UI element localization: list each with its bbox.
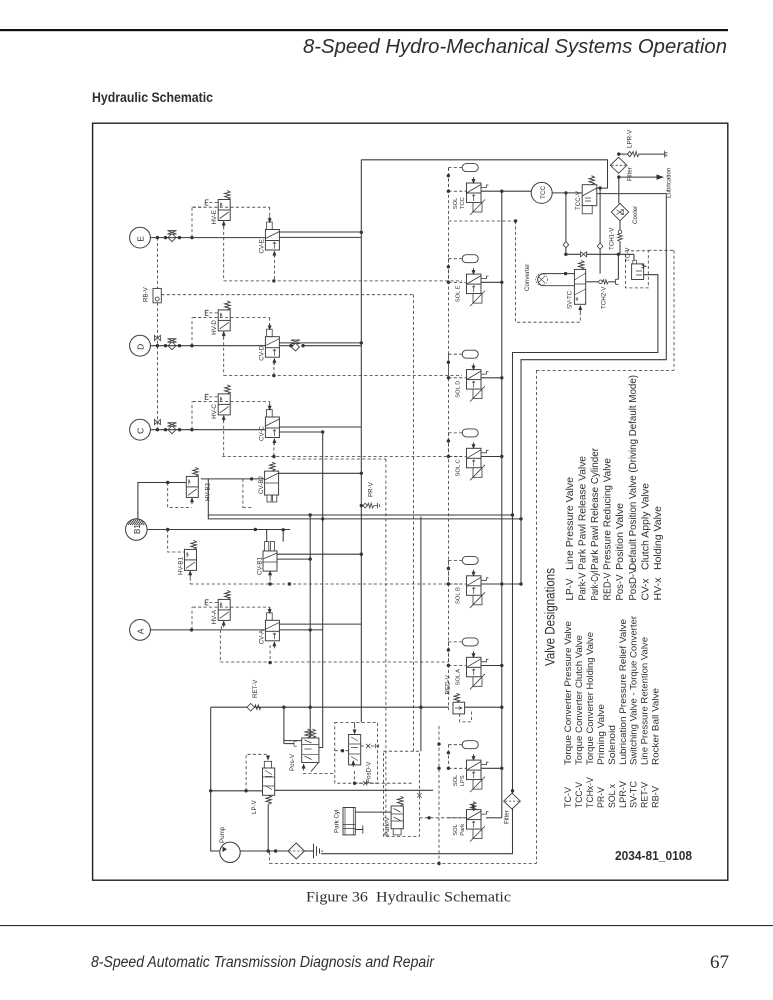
svg-text:E: E — [136, 236, 146, 242]
svg-text:RB-V: RB-V — [651, 785, 661, 808]
svg-text:A: A — [136, 628, 146, 634]
pilot dashed into SOL D — [448, 377, 466, 379]
svg-text:D: D — [136, 344, 146, 350]
pilot dashed CV-A drop — [269, 645, 271, 662]
svg-text:Park Pawl Release Cylinder: Park Pawl Release Cylinder — [590, 447, 601, 570]
arrow into Pos-V bottom — [302, 764, 306, 771]
pilot dashed B-group box — [292, 458, 386, 460]
wire TCC-V drop to converter rail — [599, 188, 601, 274]
pilot dashed SOL Park rail — [419, 817, 466, 819]
accumulator pill SOL E — [462, 255, 478, 263]
valve SV-TC switching valve — [574, 269, 585, 304]
wire lubrication line — [619, 176, 657, 178]
svg-text:LPS: LPS — [460, 775, 466, 786]
svg-text:Holding Valve: Holding Valve — [653, 506, 664, 570]
accumulator pill SOL TCC — [462, 164, 478, 172]
check symbol above node D — [154, 335, 160, 340]
svg-text:8-Speed Automatic Transmission: 8-Speed Automatic Transmission Diagnosis… — [91, 954, 435, 971]
bowtie on Park-V box right edge — [417, 793, 422, 798]
solenoid valve SOL B — [467, 570, 489, 608]
svg-text:HV-C: HV-C — [211, 404, 218, 419]
wire CV-E outputs to main bus — [279, 231, 361, 233]
svg-text:Converter: Converter — [524, 264, 531, 291]
arrow into CV-B1 bottom — [268, 570, 272, 577]
svg-text:TCH2-V: TCH2-V — [601, 286, 608, 309]
valve RB-V rocker ball valve — [153, 288, 161, 302]
check symbol above node C — [154, 419, 160, 424]
pilot dashed PosD-V bottom rail — [355, 782, 414, 784]
solenoid valve SOL TCC — [467, 177, 489, 215]
svg-text:Park-V: Park-V — [578, 572, 589, 600]
tank symbol HV-C — [205, 394, 208, 399]
pilot dashed SOL B rail — [190, 583, 462, 585]
svg-text:Switching Valve - Torque Conve: Switching Valve - Torque Converter — [629, 616, 639, 765]
arrow into CV-A actuator — [268, 607, 272, 614]
pilot dashed Pos-V bottom — [303, 772, 335, 774]
junction dots row D — [156, 344, 159, 347]
wire TC-V output staircase to CV-B2 rail — [513, 275, 658, 791]
pilot dashed HV-A tank line — [193, 606, 205, 608]
tank symbol HV-D — [205, 310, 208, 315]
svg-text:HV-A: HV-A — [211, 609, 218, 624]
accumulator pill SOL LPS — [462, 741, 478, 749]
svg-text:Line Pressure Valve: Line Pressure Valve — [565, 477, 576, 570]
valve RET-V retention valve — [247, 703, 255, 711]
svg-text:67: 67 — [710, 952, 729, 973]
svg-text:Cooler: Cooler — [632, 206, 639, 224]
svg-text:CV-E: CV-E — [259, 239, 266, 253]
svg-text:Default Position Valve (Drivin: Default Position Valve (Driving Default … — [628, 375, 639, 570]
spring Park-V top — [397, 796, 403, 806]
wire SOL B output — [481, 583, 521, 585]
valve Pos-V position valve — [302, 738, 319, 763]
pilot dashed solenoid bus vertical — [447, 168, 449, 710]
orifice row D — [168, 339, 177, 350]
svg-text:Filter: Filter — [504, 810, 511, 824]
valve Park-V park pawl release valve — [391, 806, 403, 829]
valve PR-V priming valve — [360, 504, 363, 507]
svg-text:RED-V: RED-V — [445, 674, 452, 694]
svg-text:Solenoid: Solenoid — [607, 725, 617, 765]
pilot dashed top rail row D — [193, 317, 270, 319]
pump circle — [220, 842, 240, 862]
wire main bus top rail to TCC-V — [361, 160, 607, 188]
pilot dashed CV-B2 drop — [242, 479, 244, 508]
svg-text:Park Cyl: Park Cyl — [334, 810, 341, 833]
svg-text:SOL D: SOL D — [456, 381, 462, 398]
wire LP-V drain to pump line — [267, 805, 269, 852]
pilot dashed pill feed SOL C — [448, 432, 462, 434]
valve LPR-V lubrication pressure relief — [619, 153, 627, 155]
wire bus x421 riser — [420, 517, 422, 752]
arrow into CV-E actuator — [268, 216, 272, 223]
wire clutch D main line — [150, 345, 265, 347]
svg-text:CV-B2: CV-B2 — [258, 476, 265, 494]
svg-text:Hydraulic Schematic: Hydraulic Schematic — [92, 90, 213, 105]
pilot dashed top rail row C — [193, 401, 270, 403]
svg-text:C: C — [136, 428, 146, 434]
wire pump to filter — [240, 850, 288, 852]
svg-text:Park-Cyl: Park-Cyl — [590, 571, 601, 601]
pilot dashed big box left edge — [535, 370, 537, 863]
pilot dashed SOL TCC box bottom — [448, 220, 515, 222]
pilot dashed pill feed SOL E — [448, 258, 462, 260]
pilot dashed HV-D drop — [223, 337, 225, 376]
wire row D orifice to bus — [302, 345, 362, 347]
svg-text:Torque Converter Pressure Valv: Torque Converter Pressure Valve — [563, 621, 573, 765]
wire clutch C main line — [150, 429, 265, 431]
pilot dashed left riser row C — [191, 402, 193, 430]
wire left return riser — [211, 707, 220, 851]
solenoid valve SOL D — [467, 364, 489, 402]
bowtie valve on converter top rail — [581, 252, 587, 257]
svg-text:TCH1-V: TCH1-V — [609, 227, 616, 250]
accumulator pill SOL A — [462, 638, 478, 646]
pilot dashed vertical left bus upper — [156, 238, 158, 289]
pilot dashed vertical left bus lower — [156, 303, 158, 430]
pilot dashed HV-B2 box — [168, 483, 192, 508]
pilot dashed HV-B1 drop — [189, 578, 191, 585]
junction dots row E — [156, 236, 159, 239]
svg-text:TCC-V: TCC-V — [575, 190, 582, 210]
valve CV-D clutch apply valve — [265, 329, 279, 357]
pilot dashed converter box left — [515, 221, 517, 322]
svg-text:Priming Valve: Priming Valve — [596, 704, 606, 765]
pilot dashed Park-V box — [384, 751, 420, 836]
pilot dashed into SOL Park — [448, 817, 466, 819]
pilot dashed big box top edge — [536, 369, 674, 371]
solenoid valve SOL C — [467, 442, 489, 480]
diagonal lever Pos-V — [311, 762, 319, 772]
pilot dashed lower solenoid bus — [438, 726, 440, 864]
accumulator pill SOL D — [462, 350, 478, 358]
pilot dashed row E bottom rail to SOL E — [224, 280, 462, 282]
spring LP-V bottom — [266, 795, 272, 804]
tank symbol HV-E — [205, 200, 208, 205]
header rule — [0, 29, 728, 31]
pilot dashed left riser row A — [191, 607, 193, 630]
pilot dashed HV-C tank line — [193, 401, 205, 403]
wire LP-V feed line — [211, 790, 263, 792]
wire SOL Park output stub — [486, 817, 502, 819]
solenoid valve SOL A — [467, 651, 489, 689]
filter diamond lower right — [504, 793, 521, 809]
svg-text:TCHx-V: TCHx-V — [585, 776, 595, 808]
svg-text:CV-x: CV-x — [640, 578, 651, 601]
orifice row E — [168, 231, 177, 242]
arrow into PosD-V bottom — [351, 760, 355, 767]
valve HV-A holding valve — [218, 590, 230, 620]
pilot dashed row C bottom rail to SOL C — [222, 456, 462, 458]
svg-text:SV-TC: SV-TC — [629, 781, 639, 808]
filter diamond at pump — [288, 843, 305, 859]
svg-text:Pos-V: Pos-V — [289, 753, 296, 771]
node C (clutch port circle) — [130, 419, 151, 440]
cooler diamond — [611, 203, 628, 220]
svg-text:LPR-V: LPR-V — [627, 129, 634, 148]
wire bus into Pos-V right port — [319, 707, 323, 747]
valve HV-B1 holding valve — [185, 540, 197, 570]
svg-text:Park Pawl Release Valve: Park Pawl Release Valve — [578, 456, 589, 570]
svg-text:RET-V: RET-V — [252, 679, 259, 698]
valve LP-V line pressure valve — [264, 761, 271, 768]
svg-text:SOL C: SOL C — [456, 459, 462, 476]
torque converter symbol — [538, 274, 575, 286]
pilot dashed bottom rail — [270, 863, 537, 865]
wire CV-B1 top stubs — [266, 530, 268, 542]
arrow into HV-C bottom — [222, 415, 226, 422]
accumulator pill SOL C — [462, 429, 478, 437]
wire SOL C output — [481, 456, 502, 458]
svg-text:CV-D: CV-D — [259, 345, 266, 360]
arrow into CV-A bottom — [272, 641, 276, 648]
valve CV-B2 clutch apply valve — [265, 471, 279, 495]
svg-text:HV-x: HV-x — [653, 577, 664, 601]
valve HV-C holding valve — [218, 385, 230, 415]
svg-text:LPR-V: LPR-V — [618, 780, 628, 808]
wire SOL E output — [481, 281, 502, 283]
svg-text:LP-V: LP-V — [565, 578, 576, 600]
pilot dashed row A bottom rail — [219, 630, 221, 662]
wire CV-B1 outputs — [277, 553, 361, 555]
wire converter top rail — [566, 253, 634, 255]
valve TCH1-V holding check — [619, 221, 621, 230]
arrow into HV-A bottom — [222, 620, 226, 627]
svg-text:Pump: Pump — [219, 826, 226, 843]
arrow into CV-C actuator — [268, 404, 272, 411]
wire B1 main line — [147, 529, 290, 531]
pilot dashed HV-A drop to line A — [220, 626, 222, 630]
svg-text:PR-V: PR-V — [368, 481, 375, 497]
wire HV-B2 to CV-B2 — [201, 478, 265, 480]
svg-text:SOL B: SOL B — [456, 587, 462, 604]
svg-text:Park-V: Park-V — [384, 816, 391, 836]
svg-text:Torque Converter Holding Valve: Torque Converter Holding Valve — [585, 632, 595, 765]
wire B1 riser to HV-B2 — [138, 483, 186, 520]
wire CV-C outputs — [279, 426, 361, 428]
svg-text:RED-V: RED-V — [603, 572, 614, 600]
wire SOL D output — [481, 377, 502, 379]
wire filter to cooler — [618, 177, 620, 203]
wire SOL A output — [481, 665, 502, 667]
svg-text:TCC-V: TCC-V — [574, 781, 584, 808]
pilot dashed RED-V box — [460, 711, 472, 722]
wire TCC-V right rail staircase — [521, 194, 666, 584]
pilot dashed pill feed SOL D — [448, 353, 462, 355]
svg-text:B1: B1 — [133, 524, 142, 534]
valve RED-V pressure reducing valve — [453, 702, 465, 714]
pilot dashed pill feed SOL B — [448, 559, 462, 561]
svg-text:TC-V: TC-V — [625, 247, 632, 262]
svg-text:TCC: TCC — [540, 185, 547, 199]
arrow into CV-D bottom — [272, 358, 276, 365]
arrow into CV-C bottom — [272, 438, 276, 445]
pilot dashed CV-B1 drop — [269, 578, 271, 585]
svg-text:PR-V: PR-V — [596, 786, 606, 808]
wire TCC junction drop with check — [565, 193, 567, 254]
pilot dashed into SOL A — [448, 665, 466, 667]
arrow into CV-E bottom — [272, 251, 276, 258]
valve TCH2-V check — [599, 280, 603, 284]
wire HV-B2 lower port rails — [208, 479, 512, 515]
svg-text:Pos-V: Pos-V — [615, 574, 626, 600]
arrow into HV-E bottom — [222, 221, 226, 228]
wire main pressure bus vertical — [360, 160, 362, 723]
pilot dashed B1 to HV-B1 — [168, 530, 184, 553]
arrow into SV-TC bottom — [578, 305, 582, 312]
svg-text:Position Valve: Position Valve — [615, 503, 626, 570]
wire LP-V output right — [275, 789, 433, 791]
pilot dashed left riser row D — [191, 318, 193, 346]
pilot dashed HV-C drop — [223, 420, 225, 456]
cylinder Park Cyl park pawl release — [343, 808, 355, 835]
wire CV-A outputs — [279, 623, 361, 625]
spring SV-TC top — [579, 260, 585, 269]
svg-text:SOL: SOL — [453, 197, 459, 209]
svg-text:SOL E: SOL E — [456, 285, 462, 302]
valve CV-C clutch apply valve — [265, 410, 279, 438]
svg-text:Filter: Filter — [627, 167, 634, 181]
arrow into CV-D actuator — [268, 324, 272, 331]
orifice row C — [168, 423, 177, 434]
footer rule — [0, 925, 773, 926]
pilot dashed into SOL C — [448, 456, 466, 458]
pilot dashed pill feed SOL LPS — [448, 744, 462, 746]
svg-text:SOL A: SOL A — [456, 669, 462, 686]
orifice row D secondary — [291, 340, 300, 351]
pilot dashed RB-V output rail — [161, 294, 413, 296]
figure border box — [93, 123, 728, 880]
svg-text:RET-V: RET-V — [640, 781, 650, 808]
junction dots row C — [156, 428, 159, 431]
filter diamond top right — [610, 157, 627, 173]
wire filter drop to tank — [321, 791, 512, 854]
pilot dashed big box right edge — [673, 250, 675, 370]
wire Pos-V left feeds — [283, 707, 285, 743]
solenoid valve SOL E — [467, 268, 489, 306]
svg-text:HV-E: HV-E — [211, 210, 218, 224]
solenoid valve SOL LPS — [467, 754, 489, 792]
wire SV-TC right port to TCH2-V — [586, 281, 599, 283]
svg-text:Clutch Apply Valve: Clutch Apply Valve — [640, 483, 651, 570]
svg-text:LP-V: LP-V — [251, 799, 258, 814]
pilot dashed left riser row E — [191, 207, 193, 237]
svg-text:HV-D: HV-D — [211, 320, 218, 335]
valve HV-E holding valve — [218, 191, 230, 221]
svg-text:SOL: SOL — [453, 774, 459, 786]
pilot dashed SV-TC feed — [516, 312, 581, 322]
svg-text:CV-B1: CV-B1 — [257, 557, 264, 575]
svg-text:HV-B1: HV-B1 — [177, 557, 184, 575]
pilot dashed row D bottom rail to SOL D — [224, 375, 462, 377]
arrow into PosD-V top — [354, 722, 356, 728]
wire TCC to TCC-V — [552, 192, 582, 194]
svg-text:Lubrication Pressure Relief Va: Lubrication Pressure Relief Valve — [618, 619, 628, 765]
node E (clutch port circle) — [130, 227, 151, 248]
junction dot row A — [190, 628, 193, 631]
pilot dashed into SOL B — [448, 583, 466, 585]
pilot dashed LP-V box — [246, 754, 268, 791]
svg-text:Park: Park — [460, 824, 466, 836]
spring TCC-V top — [589, 176, 595, 185]
pilot dashed pill feed SOL A — [448, 641, 462, 643]
valve TCC-V torque converter clutch valve — [582, 185, 597, 206]
pilot dashed into SOL E — [448, 281, 466, 283]
arrow into HV-D bottom — [222, 331, 226, 338]
wire SOL TCC output — [481, 190, 531, 192]
wire filter to tank symbol — [305, 850, 314, 852]
pilot dashed PosD-V bottom drop — [354, 771, 356, 783]
node B1 (clutch port circle) — [126, 519, 148, 541]
svg-text:8-Speed Hydro-Mechanical Syste: 8-Speed Hydro-Mechanical Systems Operati… — [303, 36, 727, 58]
svg-text:Line Pressure Retention Valve: Line Pressure Retention Valve — [640, 637, 650, 765]
valve CV-A clutch apply valve — [265, 613, 279, 641]
node TCC circle — [531, 182, 552, 203]
wire RET-V line — [211, 706, 449, 708]
pilot dashed pill feed SOL TCC — [448, 167, 462, 169]
wire clutch E main line — [150, 237, 265, 239]
wire Pos-V top feed — [309, 707, 311, 738]
arrow into HV-B1 bottom — [188, 570, 192, 577]
pilot dashed into SOL LPS — [448, 767, 466, 769]
valve TC-V torque converter pressure valve — [626, 251, 649, 288]
pilot dashed PosD-V left dot rail — [335, 750, 349, 752]
check valve on TCC-V drop — [597, 243, 603, 249]
pilot dashed CV-C drop — [273, 442, 275, 457]
svg-text:Rocker Ball Valve: Rocker Ball Valve — [651, 688, 661, 765]
pilot dashed top rail row A — [193, 606, 270, 608]
valve HV-D holding valve — [218, 301, 230, 331]
svg-text:SOL: SOL — [453, 823, 459, 835]
wire TCH1-V to converter top rail — [619, 241, 621, 254]
arrow into HV-B2 bottom — [190, 497, 194, 504]
wire clutch A main line — [150, 629, 265, 631]
accumulator pill SOL B — [462, 556, 478, 564]
valve PosD-V default position valve — [335, 722, 378, 783]
svg-text:SV-TC: SV-TC — [567, 290, 574, 309]
pilot dashed CV-D drop — [273, 362, 275, 376]
solenoid valve SOL Park — [467, 804, 489, 842]
node D (clutch port circle) — [130, 335, 151, 356]
valve CV-E clutch apply valve — [265, 222, 279, 250]
wire rail drop into TC-V top — [633, 254, 635, 260]
tank stubs PosD-V right — [361, 745, 366, 747]
valve HV-B2 holding valve — [186, 467, 198, 497]
valve CV-B1 clutch apply valve — [263, 551, 277, 571]
wire Park Cyl to Park-V — [355, 811, 391, 813]
svg-text:CV-A: CV-A — [259, 629, 266, 644]
tank symbol HV-A — [205, 600, 208, 605]
spring CV-B2 top — [270, 462, 276, 471]
pilot dashed HV-E tank line — [193, 206, 205, 208]
pilot dashed HV-E drop — [223, 227, 225, 281]
wire Park Cyl rod — [355, 826, 363, 834]
svg-text:TC-V: TC-V — [563, 786, 573, 808]
svg-text:PosD-V: PosD-V — [628, 567, 639, 600]
wire SOL LPS output — [481, 767, 502, 769]
node A (clutch port circle) — [130, 620, 151, 641]
tank symbol main sump — [314, 844, 323, 858]
svg-text:Torque Converter Clutch Valve: Torque Converter Clutch Valve — [574, 635, 584, 765]
pilot dashed HV-D tank line — [193, 317, 205, 319]
svg-text:PosD-V: PosD-V — [365, 761, 372, 783]
svg-text:Figure 36 Hydraulic Schematic: Figure 36 Hydraulic Schematic — [306, 890, 511, 906]
svg-text:2034-81_0108: 2034-81_0108 — [615, 849, 692, 863]
svg-text:Pressure Reducing Valve: Pressure Reducing Valve — [603, 458, 614, 570]
pilot dashed into SOL TCC — [448, 190, 466, 192]
wire secondary bus x322 — [322, 432, 324, 707]
wire SOL supply bus vertical — [501, 191, 503, 818]
